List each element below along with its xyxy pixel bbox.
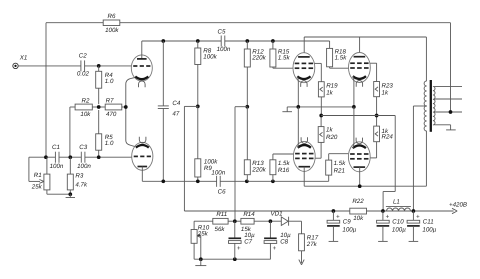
resistor R19 (318, 82, 338, 116)
svg-text:+: + (386, 213, 390, 220)
svg-text:1.0: 1.0 (105, 78, 114, 85)
resistor R1 potentiometer (29, 157, 70, 194)
svg-text:R11: R11 (216, 211, 227, 218)
svg-text:R14: R14 (243, 211, 255, 218)
wire V4 screen to R23 (370, 63, 377, 81)
wire R12/R13 node to R11/R14 node (235, 105, 249, 221)
svg-text:C10: C10 (392, 219, 404, 226)
wire V3 anode down (303, 167, 305, 187)
svg-text:VD1: VD1 (270, 211, 282, 218)
svg-text:C11: C11 (423, 219, 434, 226)
wire secondary bottom to ground (434, 125, 450, 130)
wire V4 cathode down to ground bus (352, 76, 355, 107)
transformer T1 output (424, 80, 435, 132)
wire anode rail V1a to R18 (142, 39, 330, 48)
svg-text:C3: C3 (79, 144, 87, 151)
svg-text:1k: 1k (382, 90, 389, 97)
pentode V4 upper right output tube (349, 53, 371, 87)
wire V3 cathode up to ground bus (297, 107, 299, 148)
svg-text:100n: 100n (211, 170, 225, 177)
resistor R18 (327, 48, 349, 68)
svg-text:R1: R1 (34, 172, 42, 179)
resistor R20 (315, 116, 338, 159)
capacitor C3 (77, 144, 91, 170)
ground at secondary (446, 129, 456, 131)
resistor R7 (92, 97, 126, 118)
svg-text:R19: R19 (326, 83, 338, 90)
svg-text:47: 47 (172, 111, 179, 118)
svg-text:C8: C8 (280, 239, 288, 246)
capacitor C5 (217, 28, 231, 53)
triode V1b lower input tube (132, 137, 153, 182)
capacitor C2 (77, 53, 90, 78)
svg-text:1k: 1k (326, 127, 333, 134)
ground at R1/R3 (66, 194, 75, 197)
resistor R6 (103, 13, 120, 34)
pentode V3 lower left output tube (293, 137, 315, 171)
arrow +420V supply input (449, 202, 467, 214)
svg-text:+: + (336, 213, 340, 220)
resistor R13 (244, 107, 266, 182)
svg-text:100n: 100n (77, 163, 91, 170)
wire cathode ground bus (287, 105, 356, 109)
wire lower anode row V1b to R21 (142, 175, 328, 183)
capacitor C10 electrolytic (377, 211, 407, 241)
wire V2 cathode down to ground bus (297, 77, 300, 107)
wire upper anodes to transformer primary top (304, 37, 426, 81)
inductor L1 (386, 198, 411, 211)
resistor R15 (270, 41, 293, 68)
wire screen supply bus (319, 114, 395, 211)
resistor R11 (213, 211, 228, 233)
svg-text:+420В: +420В (449, 202, 467, 209)
svg-text:C9: C9 (343, 219, 351, 226)
resistor R9 (195, 106, 218, 181)
wire transformer tap to B+ (413, 106, 427, 211)
svg-text:R21: R21 (334, 168, 345, 175)
ground at C9 (329, 240, 339, 242)
wire input from X1 to C2 (18, 65, 81, 67)
resistor R8 (195, 41, 218, 106)
wire bottom ground row (194, 257, 271, 261)
wire VD1 to R17 (289, 221, 302, 234)
svg-text:10k: 10k (80, 111, 91, 118)
ground at C11 (409, 240, 419, 242)
svg-text:R20: R20 (326, 134, 338, 141)
diode VD1 (270, 211, 288, 226)
wire C1 to C3 (59, 155, 81, 159)
svg-text:470: 470 (106, 111, 117, 118)
resistor R4 (96, 66, 114, 104)
capacitor C7 electrolytic (229, 221, 256, 259)
svg-text:R23: R23 (382, 83, 394, 90)
ground at bottom row (195, 259, 206, 265)
svg-text:R2: R2 (82, 97, 90, 104)
arrow to negative bias below R17 (299, 251, 304, 265)
wire V2 screen to R19 (315, 63, 322, 81)
resistor R23 (374, 82, 394, 116)
svg-text:220k: 220k (251, 166, 266, 173)
svg-text:1.5k: 1.5k (335, 55, 348, 62)
wire lower anodes to transformer primary bottom (304, 131, 426, 188)
capacitor C11 electrolytic (407, 211, 437, 241)
svg-text:C2: C2 (79, 53, 87, 60)
resistor R10 potentiometer (191, 225, 210, 260)
svg-text:220k: 220k (251, 55, 266, 62)
wire R11 to R14 (228, 219, 241, 223)
svg-text:10k: 10k (353, 215, 364, 222)
svg-text:56k: 56k (215, 226, 226, 233)
svg-text:R6: R6 (108, 13, 116, 20)
svg-text:100k: 100k (105, 27, 119, 34)
svg-text:+: + (237, 245, 241, 252)
wire B+ feed to R8/R9 node (184, 105, 199, 211)
wire secondary output taps (434, 86, 462, 113)
svg-text:R22: R22 (352, 198, 364, 205)
svg-text:1.5k: 1.5k (334, 160, 347, 167)
svg-text:1.5k: 1.5k (278, 55, 291, 62)
svg-text:100µ: 100µ (342, 226, 356, 233)
resistor R24 (370, 116, 393, 158)
svg-text:4.7k: 4.7k (75, 181, 88, 188)
resistor R2 (70, 97, 92, 118)
wire V1a cathode to V1b cathode with R7 tap (124, 78, 135, 147)
resistor R22 (350, 198, 367, 222)
wire R2 left down to C1/C3 node (69, 107, 71, 157)
svg-text:100n: 100n (50, 163, 64, 170)
svg-text:R24: R24 (382, 134, 394, 141)
svg-text:L1: L1 (393, 198, 400, 205)
capacitor C4 (158, 41, 181, 181)
wire V5 anode down (359, 167, 361, 186)
svg-text:C4: C4 (172, 100, 180, 107)
wire from C2 to grid of V1a (85, 64, 132, 68)
resistor R14 (241, 211, 255, 233)
svg-text:X1: X1 (19, 55, 28, 62)
svg-text:C5: C5 (218, 28, 226, 35)
svg-text:+: + (273, 245, 277, 252)
wire feedback from R6 right to transformer secondary (120, 23, 451, 112)
resistor R5 (96, 110, 114, 157)
svg-text:C7: C7 (244, 239, 252, 246)
resistor R12 (244, 41, 266, 107)
wire R14 to VD1 (254, 219, 281, 223)
wire R1 wiper to lower grid line (29, 155, 56, 159)
svg-text:25k: 25k (31, 184, 43, 191)
wire V5 cathode up to ground bus (353, 107, 354, 148)
svg-text:100µ: 100µ (422, 226, 436, 233)
svg-text:R7: R7 (106, 97, 114, 104)
svg-text:C6: C6 (218, 188, 226, 195)
triode V1a upper input tube (131, 41, 152, 87)
svg-text:27k: 27k (306, 241, 318, 248)
svg-text:25k: 25k (197, 231, 209, 238)
svg-text:+: + (416, 213, 420, 220)
wire R11/R14 row (194, 221, 213, 229)
svg-text:R3: R3 (75, 173, 83, 180)
resistor R16 (270, 154, 294, 181)
pentode V2 upper left output tube (293, 53, 315, 87)
wire feedback top from R6 left down to C1 node (46, 23, 103, 158)
svg-text:100k: 100k (203, 53, 217, 60)
pentode V5 lower right output tube (348, 138, 370, 172)
svg-text:100n: 100n (217, 46, 231, 53)
svg-text:R16: R16 (278, 167, 290, 174)
capacitor C1 (50, 144, 64, 170)
svg-text:1.0: 1.0 (105, 140, 114, 147)
ground at cathode bus (282, 107, 292, 112)
connector X1 (13, 55, 27, 69)
resistor R17 (299, 234, 319, 251)
wire C3 to grid of V1b (85, 155, 132, 159)
ground at C10 (378, 240, 388, 242)
capacitor C8 electrolytic (264, 221, 291, 259)
svg-text:C1: C1 (52, 144, 60, 151)
resistor R3 (67, 157, 88, 196)
capacitor C9 electrolytic (327, 211, 357, 241)
capacitor C6 (211, 170, 226, 196)
resistor R21 (326, 154, 349, 175)
wire B+ rail (184, 209, 453, 213)
svg-text:100µ: 100µ (392, 226, 406, 233)
svg-text:1k: 1k (326, 90, 333, 97)
svg-text:0.02: 0.02 (77, 71, 90, 78)
